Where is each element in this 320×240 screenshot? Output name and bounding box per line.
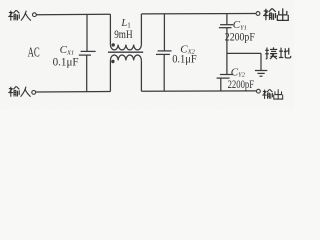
wire: choke top-left lead bbox=[109, 14, 111, 44]
label 输入 (input, bottom-left) bbox=[8, 86, 30, 96]
inductor L1 (common-mode choke) bbox=[108, 14, 143, 92]
wire CX2 bottom lead bbox=[163, 54, 165, 91]
CY1 top plate bbox=[220, 24, 233, 26]
svg-text:0.1μF: 0.1μF bbox=[53, 54, 79, 68]
L1 bottom winding bbox=[110, 55, 141, 60]
CY2 top plate bbox=[220, 74, 234, 76]
label 输出 (output, bottom-right) bbox=[262, 89, 282, 99]
wire CX1 bottom lead bbox=[86, 55, 88, 92]
wire bottom-right bbox=[141, 90, 256, 92]
label 接地 (earth, right) bbox=[265, 47, 291, 59]
polarity dot top bbox=[112, 43, 115, 46]
capacitor CX1 bbox=[79, 15, 96, 92]
wire: choke top-right lead bbox=[140, 14, 142, 45]
wire bottom-left bbox=[36, 91, 111, 94]
capacitor CY1 bbox=[219, 14, 233, 75]
core bbox=[108, 51, 143, 53]
label 输入 (input, top-left) bbox=[8, 10, 31, 20]
node output-bottom terminal bbox=[257, 89, 261, 93]
svg-text:9mH: 9mH bbox=[114, 27, 133, 41]
CX2 bottom plate bbox=[156, 53, 170, 55]
svg-text:2200pF: 2200pF bbox=[225, 29, 255, 43]
capacitor CY2 bbox=[217, 75, 234, 92]
wire CY1-CY2 middle lead bbox=[226, 28, 228, 75]
wire CX2 top lead bbox=[163, 14, 165, 51]
wire: choke bottom-left lead bbox=[109, 60, 111, 91]
svg-text:AC: AC bbox=[28, 45, 40, 60]
node output-top terminal bbox=[256, 12, 260, 16]
CX1 top plate bbox=[81, 50, 96, 52]
wire: choke bottom-right lead bbox=[140, 60, 142, 91]
label 输出 (output, top-right) bbox=[263, 8, 288, 20]
wire to earth bbox=[227, 52, 261, 54]
wire CY1 top lead bbox=[226, 14, 228, 25]
L1 top winding bbox=[110, 45, 141, 50]
ground bbox=[255, 53, 267, 76]
capacitor CX2 bbox=[156, 14, 172, 91]
CY2 bottom plate bbox=[217, 77, 230, 79]
svg-text:0.1μF: 0.1μF bbox=[172, 52, 197, 66]
wire top-right bbox=[141, 13, 256, 15]
svg-text:2200pF: 2200pF bbox=[228, 77, 255, 91]
CX2 top plate bbox=[158, 50, 172, 52]
wire CY2 bottom lead bbox=[220, 78, 222, 91]
node input-bottom terminal bbox=[32, 91, 36, 95]
CY1 bottom plate bbox=[219, 27, 232, 29]
wire CX1 top lead bbox=[86, 15, 88, 52]
CX1 bottom plate bbox=[79, 54, 91, 56]
node input-top terminal bbox=[33, 13, 37, 17]
wire top-left bbox=[37, 13, 111, 16]
polarity dot bottom bbox=[111, 60, 114, 63]
